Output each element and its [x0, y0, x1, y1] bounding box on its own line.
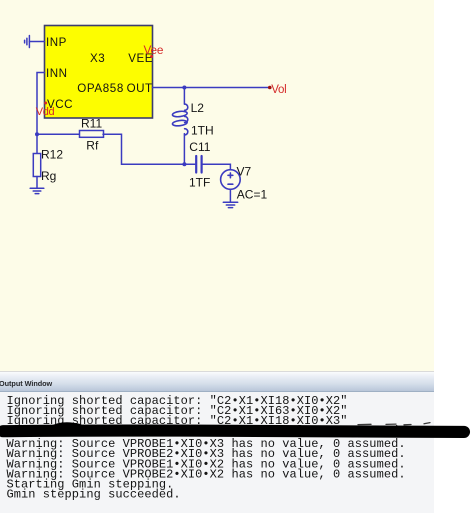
wire R12 to ground [36, 177, 38, 189]
op-amp macro block X3 body [45, 26, 153, 119]
svg-text:V7: V7 [237, 164, 252, 178]
svg-text:OPA858: OPA858 [77, 82, 124, 95]
svg-text:Rf: Rf [86, 138, 99, 152]
svg-text:1TH: 1TH [191, 124, 214, 138]
svg-text:1TF: 1TF [189, 175, 210, 189]
resistor R12 [33, 154, 40, 177]
resistor R11 [80, 131, 104, 138]
svg-text:Gmin stepping succeeded.: Gmin stepping succeeded. [7, 488, 181, 502]
svg-text:INP: INP [46, 36, 67, 49]
ground at R12 [30, 188, 44, 193]
svg-text:Vdd: Vdd [36, 106, 55, 118]
net label Vdd pin dot [44, 102, 47, 105]
node B junction dot [182, 162, 186, 166]
net label Vol pin dot [268, 86, 272, 90]
svg-text:Vol: Vol [271, 84, 286, 96]
inductor L2 [172, 104, 188, 135]
svg-text:C11: C11 [189, 140, 210, 154]
wire node A to R11 [37, 133, 79, 135]
wire C11 to V7 [203, 164, 231, 170]
wire OUT pin to Vol [153, 87, 270, 89]
wire R11 to node B [103, 134, 184, 164]
svg-text:AC=1: AC=1 [237, 187, 268, 201]
capacitor C11 [196, 156, 201, 173]
wire node B to C11 [184, 163, 195, 165]
wire L2 to node B [183, 134, 185, 165]
net label Vee pin dot [150, 55, 153, 58]
wire INP pin [29, 41, 44, 43]
svg-text:R11: R11 [81, 117, 102, 131]
ground at V7 [223, 202, 237, 207]
svg-text:R12: R12 [41, 147, 63, 161]
ground at INP (rotated left) [25, 36, 30, 48]
annotation marker ellipse [3, 423, 464, 432]
wire OUT node to L2 [183, 88, 185, 105]
svg-text:INN: INN [46, 67, 67, 80]
svg-text:Vee: Vee [144, 43, 164, 57]
wire INN pin to feedback node [37, 73, 45, 135]
voltage source V7 [221, 170, 241, 190]
output window log text [7, 394, 406, 502]
wire node A to R12 [36, 134, 38, 153]
svg-text:OUT: OUT [127, 82, 153, 95]
node out junction dot [182, 86, 186, 90]
svg-text:L2: L2 [191, 101, 205, 115]
svg-text:Rg: Rg [41, 169, 56, 183]
svg-text:X3: X3 [90, 52, 105, 65]
wire V7 to ground [229, 189, 231, 202]
node A junction dot [35, 132, 39, 136]
